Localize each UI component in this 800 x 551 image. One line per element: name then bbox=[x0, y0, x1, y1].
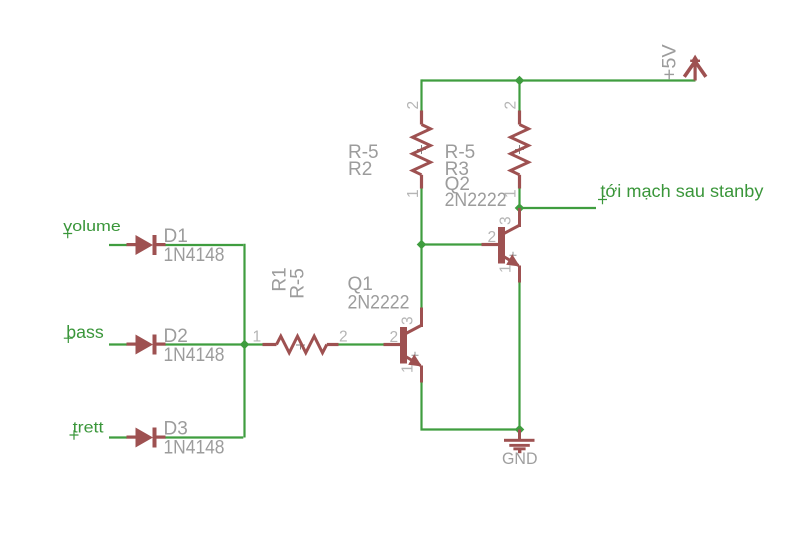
svg-text:volume: volume bbox=[63, 219, 121, 235]
wire net N$1 volume to D1 bbox=[109, 244, 127, 246]
label origin cross volume bbox=[63, 229, 72, 239]
svg-text:+5V: +5V bbox=[659, 44, 680, 80]
origin cross R3 bbox=[515, 145, 524, 154]
svg-text:3: 3 bbox=[400, 316, 417, 325]
svg-text:R2: R2 bbox=[348, 159, 372, 180]
wire bass to D2 bbox=[109, 343, 127, 345]
label origin cross output bbox=[598, 195, 607, 205]
svg-text:2N2222: 2N2222 bbox=[348, 293, 410, 314]
junction node at D2 / R1 bbox=[240, 340, 250, 350]
svg-text:R-5: R-5 bbox=[287, 268, 308, 299]
svg-text:2: 2 bbox=[390, 329, 399, 346]
transistor Q1 bbox=[384, 308, 424, 383]
svg-text:1: 1 bbox=[405, 189, 422, 198]
wire Q2 emitter down to ground junction bbox=[518, 283, 520, 430]
ground symbol GND bbox=[504, 430, 535, 454]
wire trett to D3 bbox=[109, 436, 127, 438]
svg-text:1N4148: 1N4148 bbox=[164, 245, 225, 266]
wire base net junction to Q2 base bbox=[422, 243, 482, 245]
svg-text:2: 2 bbox=[503, 101, 520, 110]
svg-text:GND: GND bbox=[502, 450, 538, 468]
diode D3 bbox=[127, 428, 166, 448]
junction node top rail / R3 bbox=[515, 76, 525, 86]
svg-text:trett: trett bbox=[73, 420, 105, 437]
origin cross Q2 bbox=[510, 252, 517, 259]
svg-text:tới mạch sau stanby: tới mạch sau stanby bbox=[600, 181, 763, 201]
junction node R3 / Q2 collector / output bbox=[515, 203, 525, 213]
wire top rail corner down to R2 pin2 bbox=[420, 79, 422, 110]
wire Q1 emitter down and right to ground junction bbox=[422, 383, 520, 430]
svg-text:3: 3 bbox=[498, 216, 515, 225]
svg-text:1N4148: 1N4148 bbox=[164, 345, 225, 366]
wire R2 pin1 down through junction to Q1 collector bbox=[420, 189, 422, 308]
svg-text:1: 1 bbox=[498, 264, 515, 273]
origin cross R2 bbox=[417, 145, 426, 154]
wire D3 cathode to bus corner bbox=[165, 436, 243, 438]
junction node emitters / GND bbox=[515, 425, 525, 435]
diode D2 bbox=[127, 335, 166, 355]
svg-text:1N4148: 1N4148 bbox=[164, 438, 225, 459]
label origin cross trett bbox=[70, 430, 79, 440]
wire top rail to +5V bbox=[422, 79, 696, 81]
wire D1 cathode to bus corner bbox=[165, 244, 243, 246]
svg-text:bass: bass bbox=[66, 322, 104, 342]
svg-text:1: 1 bbox=[503, 189, 520, 198]
svg-text:2: 2 bbox=[405, 101, 422, 110]
svg-text:1: 1 bbox=[400, 364, 417, 373]
diode D1 bbox=[127, 235, 166, 255]
wire collector junction to output label bbox=[520, 207, 597, 209]
svg-text:2: 2 bbox=[339, 329, 348, 346]
origin cross Q1 bbox=[412, 352, 419, 359]
svg-text:D2: D2 bbox=[164, 326, 188, 347]
resistor R1 bbox=[263, 336, 339, 353]
label origin cross bass bbox=[64, 333, 73, 343]
supply +5V symbol P+ bbox=[684, 55, 706, 81]
svg-text:D1: D1 bbox=[164, 226, 188, 247]
wire R3 pin2 up to top rail bbox=[518, 81, 520, 111]
svg-text:D3: D3 bbox=[164, 419, 188, 440]
svg-text:2: 2 bbox=[488, 229, 497, 246]
transistor Q2 bbox=[482, 208, 522, 283]
svg-text:1: 1 bbox=[253, 329, 262, 346]
junction node at R2 bottom / Q2 base net bbox=[417, 240, 427, 250]
wire junction to R1 pin1 bbox=[245, 343, 263, 345]
wire R1 pin2 to Q1 base bbox=[339, 343, 384, 345]
wire D2 cathode to junction bbox=[165, 343, 245, 345]
wire R3 pin1 down to collector junction bbox=[518, 189, 520, 209]
wire vertical bus D1-D2-D3 bbox=[243, 244, 245, 438]
origin cross R1 bbox=[296, 341, 305, 350]
resistor R2 bbox=[413, 111, 431, 189]
svg-text:2N2222: 2N2222 bbox=[445, 190, 507, 211]
resistor R3 bbox=[511, 111, 529, 189]
